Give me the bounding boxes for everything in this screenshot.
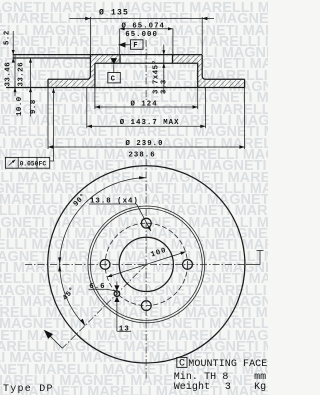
horizontal centerline bbox=[25, 263, 246, 265]
svg-text:C: C bbox=[179, 359, 185, 370]
datum C box bbox=[111, 58, 118, 65]
svg-text:Ø 143.7 MAX: Ø 143.7 MAX bbox=[120, 118, 180, 127]
section centerline bbox=[145, 40, 147, 100]
angle dimension arc 90/45 bbox=[60, 178, 147, 326]
svg-text:3.7x45°: 3.7x45° bbox=[152, 59, 161, 94]
hat step extension line bbox=[13, 57, 91, 59]
svg-text:0.050: 0.050 bbox=[20, 160, 39, 167]
svg-text:9.8: 9.8 bbox=[30, 99, 38, 114]
disc section outline left bbox=[48, 55, 95, 88]
svg-text:3.3: 3.3 bbox=[160, 79, 168, 94]
circle Ø143.7 bbox=[88, 206, 205, 323]
svg-text:13: 13 bbox=[119, 325, 130, 333]
svg-text:3: 3 bbox=[225, 382, 231, 393]
svg-text:mm: mm bbox=[254, 372, 266, 383]
bolt hole left bbox=[100, 260, 110, 270]
svg-text:MOUNTING FACE: MOUNTING FACE bbox=[188, 359, 267, 370]
svg-text:33.46: 33.46 bbox=[5, 62, 13, 87]
45 degree radial centerline bbox=[62, 264, 146, 348]
svg-text:Min. TH 8: Min. TH 8 bbox=[174, 371, 229, 383]
bore edges bbox=[120, 55, 173, 64]
svg-text:33.26: 33.26 bbox=[18, 62, 26, 87]
bolt hole right bbox=[183, 260, 193, 270]
dimension 5.2 bbox=[12, 31, 14, 61]
bore circle Ø65 bbox=[119, 237, 173, 291]
svg-text:10.0: 10.0 bbox=[16, 96, 24, 116]
svg-text:6.6: 6.6 bbox=[89, 283, 105, 291]
dimension 33.46 bbox=[14, 55, 16, 96]
svg-text:Kg: Kg bbox=[254, 382, 266, 393]
hat bottom line bbox=[95, 62, 198, 64]
svg-text:C: C bbox=[111, 76, 116, 84]
mounting face note bbox=[177, 357, 187, 367]
runout tolerance frame 0.050 FC bbox=[5, 157, 49, 168]
mounting face line bbox=[13, 54, 203, 56]
runout reference bracket bbox=[246, 251, 264, 265]
dimension 100 bolt circle bbox=[107, 252, 185, 277]
circle Ø135 bbox=[90, 208, 202, 320]
locating hole 6.6 bbox=[114, 291, 120, 297]
dimension 3.7x45/3.3 bbox=[163, 45, 165, 94]
svg-text:Ø 135: Ø 135 bbox=[99, 9, 129, 18]
svg-text:Type DP: Type DP bbox=[3, 384, 54, 395]
band bottom line bbox=[6, 87, 245, 89]
section view arrow bbox=[48, 334, 62, 348]
datum F box bbox=[118, 42, 125, 47]
runout leader to braking surface bbox=[50, 88, 54, 161]
svg-text:5.2: 5.2 bbox=[4, 30, 12, 45]
dimension 33.26 bbox=[30, 58, 32, 117]
svg-text:238.6: 238.6 bbox=[129, 152, 156, 160]
section hatching bbox=[40, 50, 255, 92]
disc section outline right bbox=[198, 55, 245, 88]
svg-text:65.000: 65.000 bbox=[125, 31, 158, 39]
outer circle Ø239 bbox=[48, 166, 245, 363]
svg-text:Weight: Weight bbox=[174, 381, 211, 393]
bolt hole bottom bbox=[141, 301, 151, 311]
bolt circle Ø100 dashed bbox=[105, 223, 187, 305]
svg-text:F: F bbox=[133, 42, 138, 50]
bolt hole top bbox=[141, 218, 151, 228]
svg-text:FC: FC bbox=[39, 160, 47, 167]
vertical centerline bbox=[145, 159, 147, 380]
